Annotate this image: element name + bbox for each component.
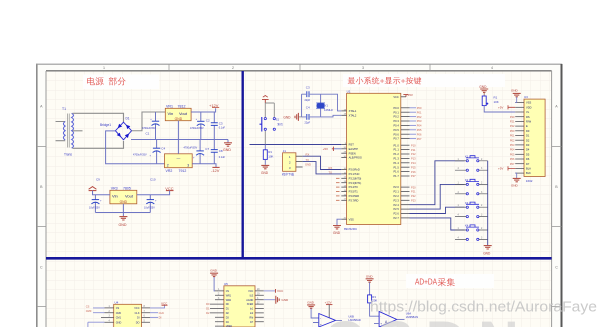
- svg-text:4700uF/35V: 4700uF/35V: [184, 146, 198, 149]
- power port +5V (reset): [262, 96, 269, 104]
- section divider vertical: [241, 71, 243, 258]
- svg-text:GND: GND: [305, 163, 311, 167]
- svg-text:7812: 7812: [178, 104, 186, 108]
- svg-text:RST: RST: [349, 143, 355, 147]
- svg-text:GND: GND: [120, 200, 128, 204]
- svg-text:VSS: VSS: [526, 101, 531, 105]
- svg-text:VR2: VR2: [166, 169, 173, 173]
- pin numbers MCU left: [344, 109, 347, 219]
- svg-text:Rfb: Rfb: [249, 316, 253, 319]
- svg-text:P01: P01: [510, 134, 515, 138]
- svg-text:P02: P02: [417, 115, 422, 119]
- crystal Y1 12MHz: [316, 94, 333, 117]
- svg-text:+5V: +5V: [498, 167, 503, 171]
- wire center tap stub: [73, 130, 83, 132]
- svg-text:AD+DA: AD+DA: [415, 277, 437, 287]
- ground (buttons): [483, 246, 492, 256]
- svg-text:CLK: CLK: [159, 311, 165, 315]
- svg-text:P21: P21: [510, 120, 515, 124]
- svg-text:P20: P20: [510, 115, 515, 119]
- ground (above R3): [366, 274, 374, 295]
- svg-text:GND: GND: [483, 251, 491, 255]
- svg-text:GND: GND: [116, 321, 122, 324]
- wire crystal to XTAL1: [321, 94, 342, 111]
- svg-text:89C52RC: 89C52RC: [344, 227, 358, 231]
- svg-text:D3: D3: [526, 143, 530, 147]
- label U6B LM358AD: [348, 315, 360, 322]
- connector J1 stubs: [296, 156, 303, 167]
- svg-text:7912: 7912: [179, 169, 187, 173]
- svg-text:GND: GND: [175, 117, 183, 121]
- ADC left stubs and wires: [86, 305, 114, 327]
- svg-text:P22: P22: [510, 124, 515, 128]
- svg-text:2: 2: [167, 164, 169, 168]
- wire 7805 input rail: [93, 191, 110, 195]
- svg-text:S1: S1: [276, 118, 280, 122]
- section divider horizontal: [46, 257, 552, 260]
- zone reference labels: [40, 66, 558, 270]
- svg-text:P2.1: P2.1: [393, 190, 399, 194]
- button S1 reset: [260, 103, 283, 145]
- svg-text:Vout: Vout: [179, 111, 188, 116]
- svg-text:P2.3: P2.3: [393, 198, 399, 202]
- svg-text:P01: P01: [417, 110, 422, 114]
- svg-text:XTAL1: XTAL1: [349, 109, 357, 113]
- svg-text:U3: U3: [524, 95, 528, 99]
- svg-text:GND: GND: [511, 184, 519, 188]
- svg-text:GND: GND: [223, 148, 231, 152]
- svg-text:P15: P15: [411, 165, 416, 169]
- svg-text:C7: C7: [205, 147, 209, 151]
- power port +12V input arrow: [89, 187, 97, 191]
- svg-text:D7: D7: [526, 162, 530, 166]
- svg-text:P07: P07: [510, 162, 515, 166]
- svg-text:+5V: +5V: [498, 106, 503, 110]
- J1 net labels: [305, 153, 332, 175]
- svg-text:P04: P04: [417, 124, 422, 128]
- svg-text:P03: P03: [417, 119, 422, 123]
- svg-text:D0: D0: [526, 129, 530, 133]
- svg-text:1602: 1602: [526, 179, 533, 183]
- title: power section: [83, 75, 159, 90]
- label U6A LM358AN: [406, 312, 418, 319]
- wire J1 pin2 to MCU TxD: [303, 162, 342, 174]
- wire secondary top to bridge: [73, 113, 124, 122]
- svg-text:CM0: CM0: [116, 312, 122, 315]
- MCU left pin stubs: [341, 111, 346, 219]
- ground (crystal) rotated left: [283, 113, 301, 121]
- wire RST long: [250, 144, 342, 146]
- svg-text:EA/VPP: EA/VPP: [349, 147, 359, 151]
- P3 pin tick marks: [336, 178, 340, 200]
- ground (LCD BLK): [511, 173, 521, 188]
- svg-text:E: E: [526, 124, 528, 128]
- svg-text:GND: GND: [307, 301, 315, 305]
- DAC data net labels: [206, 302, 210, 315]
- svg-text:VCC: VCC: [393, 95, 399, 99]
- op-amp U6A: [374, 312, 405, 327]
- svg-text:C8: C8: [219, 149, 223, 153]
- svg-text:D6: D6: [526, 157, 530, 161]
- svg-text:22pF: 22pF: [305, 99, 311, 102]
- svg-text:7805: 7805: [123, 187, 131, 191]
- svg-text:P1.5: P1.5: [393, 165, 399, 169]
- svg-text:RX: RX: [306, 153, 310, 157]
- title: AD+DA: [406, 274, 494, 288]
- svg-text:0.1uF: 0.1uF: [219, 156, 226, 159]
- svg-text:CM0: CM0: [86, 309, 92, 313]
- ADC right stubs: [142, 306, 151, 322]
- svg-text:P05: P05: [417, 128, 422, 132]
- wire bridge left to VR2 input rail: [106, 131, 165, 164]
- wire VR2 output rail to -12V: [192, 164, 216, 168]
- svg-text:D5: D5: [526, 152, 530, 156]
- svg-text:+: +: [320, 323, 322, 327]
- svg-text:4700uF/35V: 4700uF/35V: [142, 127, 156, 130]
- power port VCC (ADC): [150, 301, 168, 308]
- svg-text:22pF: 22pF: [305, 122, 311, 125]
- svg-text:—: —: [177, 157, 181, 161]
- capacitor C4 22pF (bottom): [302, 106, 321, 125]
- svg-text:1: 1: [103, 66, 105, 70]
- svg-text:P0.2: P0.2: [393, 115, 399, 119]
- svg-text:VR3: VR3: [111, 187, 118, 191]
- svg-text:DO: DO: [136, 321, 140, 324]
- svg-text:VCC: VCC: [165, 186, 173, 191]
- op-amp U6B: [313, 314, 342, 327]
- wire P2.4 to button K1: [410, 161, 465, 205]
- svg-text:P02: P02: [510, 138, 515, 142]
- svg-text:P03: P03: [510, 143, 515, 147]
- connector J1 program header: [282, 149, 296, 176]
- resistor R3 20K: [368, 295, 380, 316]
- wire J1 pin1 to MCU RxD: [303, 156, 342, 169]
- regulator VR2 7912: [165, 154, 193, 173]
- capacitor C10: [144, 195, 157, 213]
- svg-text:P1.7: P1.7: [393, 174, 399, 178]
- svg-text:D0: D0: [206, 302, 210, 306]
- svg-text:P0.5: P0.5: [393, 128, 399, 132]
- regulator VR1 7812: [165, 104, 191, 121]
- svg-text:P1.2: P1.2: [393, 152, 399, 156]
- svg-text:P20: P20: [411, 185, 416, 189]
- svg-text:0.1uF: 0.1uF: [219, 126, 226, 129]
- svg-text:P00: P00: [417, 106, 422, 110]
- svg-text:VR1: VR1: [166, 104, 173, 108]
- svg-text:CS: CS: [226, 290, 230, 293]
- svg-text:2: 2: [232, 66, 234, 70]
- regulator VR3 7805: [110, 187, 137, 205]
- svg-text:GND: GND: [333, 231, 341, 235]
- svg-text:P3.1/TxD: P3.1/TxD: [349, 172, 360, 176]
- svg-text:P2.7: P2.7: [393, 216, 399, 220]
- capacitor C7: [184, 140, 210, 164]
- capacitor C9: [89, 195, 102, 213]
- svg-text:DI: DI: [159, 316, 162, 320]
- svg-text:P0.1: P0.1: [393, 110, 399, 114]
- svg-text:XFER: XFER: [247, 303, 254, 306]
- svg-text:RX: RX: [329, 166, 333, 170]
- svg-text:P17: P17: [411, 174, 416, 178]
- wire VR3 GND pin: [122, 204, 124, 216]
- wire P2.7 to button K4: [410, 218, 465, 230]
- svg-text:C: C: [40, 266, 43, 270]
- svg-text:P0.7: P0.7: [393, 137, 399, 141]
- svg-text:D4: D4: [526, 148, 530, 152]
- svg-text:Vout: Vout: [125, 194, 134, 199]
- wire P2.6 to button K3: [410, 207, 465, 213]
- power port +5V at EA: [323, 147, 342, 152]
- svg-text:J1: J1: [283, 149, 287, 153]
- P0 net labels: [417, 106, 422, 141]
- net label DI: [150, 316, 162, 320]
- ground (LCD VSS): [511, 89, 521, 103]
- svg-text:Y1: Y1: [325, 104, 329, 108]
- net label CLK: [150, 311, 164, 315]
- svg-text:P1.1: P1.1: [393, 148, 399, 152]
- svg-text:Vin: Vin: [112, 194, 118, 199]
- power port +5V (LCD BLA): [498, 166, 515, 170]
- svg-text:R/W: R/W: [526, 120, 532, 124]
- svg-text:D1: D1: [206, 307, 210, 311]
- svg-text:P05: P05: [510, 152, 515, 156]
- svg-text:10K: 10K: [268, 155, 273, 159]
- power port +5V (LCD VDD): [498, 105, 515, 109]
- svg-text:D1: D1: [126, 117, 130, 121]
- svg-text:P06: P06: [510, 157, 515, 161]
- ground (op-amp input): [307, 301, 319, 319]
- svg-text:4700uF/35V: 4700uF/35V: [133, 153, 147, 156]
- ADC U4 TLC549: [114, 300, 142, 327]
- svg-text:4700uF/35V: 4700uF/35V: [190, 127, 204, 130]
- svg-text:C: C: [555, 266, 558, 270]
- power port VCC: [165, 186, 173, 191]
- wire secondary bottom to bridge: [73, 141, 124, 148]
- capacitor C1 4700uF/35V: [142, 112, 160, 140]
- capacitor C3 0.1uF: [211, 112, 226, 140]
- svg-text:P22: P22: [411, 194, 416, 198]
- svg-text:U4: U4: [115, 300, 119, 304]
- wire 7805 output rail: [137, 191, 170, 195]
- svg-text:C3: C3: [219, 121, 223, 125]
- svg-text:D2: D2: [526, 138, 530, 142]
- svg-text:10uF/25V: 10uF/25V: [89, 206, 100, 209]
- DAC left stubs: [210, 289, 224, 326]
- svg-text:4: 4: [491, 66, 493, 70]
- button K3: [455, 201, 488, 218]
- svg-text:AGND: AGND: [246, 299, 253, 302]
- wire VR1 Vout to +12V rail: [191, 108, 216, 112]
- svg-text:GND: GND: [479, 85, 487, 89]
- button K2: [455, 178, 488, 195]
- GND mid rail: [131, 139, 228, 141]
- ground GND (power mid): [223, 140, 232, 153]
- svg-text:P3.6/WR: P3.6/WR: [349, 194, 360, 198]
- svg-text:Bridge1: Bridge1: [100, 123, 111, 127]
- wire buttons common rail: [487, 161, 489, 245]
- svg-text:P2.6: P2.6: [393, 212, 399, 216]
- svg-text:https://blog.csdn.net/AuroraFa: https://blog.csdn.net/AuroraFaye: [370, 300, 597, 316]
- svg-text:VCC: VCC: [277, 289, 284, 293]
- svg-text:P11: P11: [411, 148, 416, 152]
- DAC U5 DAC0832: [224, 282, 255, 327]
- svg-text:P00: P00: [510, 129, 515, 133]
- svg-text:R1: R1: [268, 150, 272, 154]
- svg-text:P0.6: P0.6: [393, 132, 399, 136]
- power port VCC (DAC): [264, 289, 284, 293]
- svg-text:P14: P14: [411, 161, 416, 165]
- power port -12V: [211, 167, 220, 173]
- svg-text:GND: GND: [210, 268, 218, 272]
- wire VR2 top pin: [177, 140, 179, 154]
- wire VR1 GND pin: [177, 121, 179, 140]
- capacitor C4: [133, 140, 165, 164]
- svg-text:P3.2(INT0): P3.2(INT0): [349, 176, 362, 180]
- ground (reset R1): [261, 165, 269, 175]
- svg-text:P3.3(INT1): P3.3(INT1): [349, 181, 362, 185]
- svg-text:-: -: [320, 317, 321, 321]
- svg-text:12MHz: 12MHz: [324, 108, 333, 112]
- svg-text:CS: CS: [116, 307, 120, 310]
- P2 net labels: [411, 185, 416, 202]
- svg-text:PSEN: PSEN: [349, 151, 356, 155]
- svg-text:GND: GND: [119, 223, 127, 227]
- power port +12V: [209, 103, 219, 108]
- ground GND (7805): [119, 217, 128, 227]
- svg-text:VCC: VCC: [134, 307, 139, 310]
- svg-text:CLK: CLK: [135, 312, 140, 315]
- LCD control net labels: [510, 115, 515, 166]
- svg-text:P13: P13: [411, 157, 416, 161]
- svg-text:P2.0: P2.0: [393, 185, 399, 189]
- svg-text:P04: P04: [510, 148, 515, 152]
- bridge rectifier Bridge1: [100, 117, 132, 140]
- LCD connector U3 1602: [524, 95, 545, 183]
- svg-text:C10: C10: [150, 178, 156, 182]
- svg-text:3: 3: [362, 66, 364, 70]
- wire crystal to XTAL2: [321, 115, 342, 117]
- svg-text:GND: GND: [261, 171, 269, 175]
- power port +5V at MCU VCC: [403, 93, 413, 97]
- svg-text:+5V: +5V: [408, 93, 413, 97]
- svg-text:P2.2: P2.2: [393, 194, 399, 198]
- svg-text:GND: GND: [282, 298, 290, 302]
- svg-text:GND: GND: [366, 274, 374, 278]
- svg-text:P1.4: P1.4: [393, 161, 399, 165]
- svg-text:C4: C4: [161, 147, 165, 151]
- svg-text:D2: D2: [206, 311, 210, 315]
- svg-text:GND: GND: [283, 115, 291, 119]
- wire bridge right to VR1 Vin: [132, 112, 165, 131]
- svg-text:P1.6: P1.6: [393, 170, 399, 174]
- svg-text:XTAL2: XTAL2: [349, 113, 357, 117]
- svg-text:D1: D1: [526, 134, 530, 138]
- wire P2.5 to button K2: [410, 184, 465, 209]
- svg-text:GND: GND: [511, 89, 519, 93]
- svg-text:ILE: ILE: [250, 294, 254, 297]
- capacitor C8 0.1uF: [211, 140, 226, 164]
- svg-text:ALE/PROG: ALE/PROG: [349, 156, 362, 160]
- resistor R1 10K: [263, 145, 273, 165]
- svg-text:WR1: WR1: [226, 294, 232, 297]
- svg-text:P06: P06: [417, 132, 422, 136]
- svg-text:10K: 10K: [494, 100, 499, 104]
- resistor R4 10K: [482, 96, 515, 112]
- svg-text:P1.0: P1.0: [393, 143, 399, 147]
- svg-text:P2.5: P2.5: [393, 207, 399, 211]
- svg-text:VCC: VCC: [248, 290, 253, 293]
- svg-text:VSS: VSS: [349, 217, 354, 221]
- ground (DAC CS): [210, 268, 218, 291]
- svg-text:VDD: VDD: [526, 105, 532, 109]
- svg-text:P3.0/RxD: P3.0/RxD: [349, 168, 360, 172]
- svg-text:P0.0: P0.0: [393, 106, 399, 110]
- svg-text:P2.4: P2.4: [393, 203, 399, 207]
- svg-text:P3.4/T0: P3.4/T0: [349, 185, 359, 189]
- button K1: [455, 155, 488, 172]
- P1 net labels: [411, 143, 416, 178]
- title: minimal system: [343, 74, 505, 87]
- transformer T1: [56, 107, 74, 157]
- svg-text:BLK: BLK: [526, 171, 531, 175]
- svg-text:VL: VL: [526, 110, 530, 114]
- svg-text:P0.4: P0.4: [393, 124, 399, 128]
- svg-text:C3: C3: [306, 86, 310, 90]
- power port +12V (op-amp): [325, 301, 333, 318]
- svg-text:Vin: Vin: [168, 111, 174, 116]
- svg-text:RS: RS: [526, 115, 530, 119]
- svg-text:CS: CS: [86, 305, 90, 309]
- svg-text:3: 3: [187, 164, 189, 168]
- button K4: [455, 224, 488, 241]
- svg-text:C4: C4: [306, 106, 310, 110]
- svg-text:P07: P07: [417, 137, 422, 141]
- svg-text:+12V: +12V: [325, 301, 332, 305]
- svg-text:+5V: +5V: [323, 147, 328, 151]
- ground arrow (DAC AGND): [264, 296, 289, 304]
- svg-text:BLA: BLA: [526, 167, 531, 171]
- capacitor C2: [190, 112, 210, 140]
- svg-text:P1.3: P1.3: [393, 157, 399, 161]
- wire 7805 bottom rail: [95, 212, 150, 214]
- ground at MCU VSS: [333, 219, 341, 235]
- svg-text:WR2: WR2: [226, 299, 232, 302]
- MCU right pin stubs: [401, 97, 410, 218]
- svg-text:P3.7/RD: P3.7/RD: [349, 198, 359, 202]
- svg-text:T1: T1: [62, 107, 66, 111]
- P0 net wires: [410, 108, 417, 139]
- svg-text:C9: C9: [96, 178, 100, 182]
- svg-text:DI: DI: [137, 317, 140, 320]
- svg-text:P21: P21: [411, 190, 416, 194]
- ground (above R4): [479, 85, 488, 96]
- svg-text:P12: P12: [411, 152, 416, 156]
- sheet border frame: [36, 64, 562, 327]
- svg-text:P3.5/T1: P3.5/T1: [349, 190, 359, 194]
- svg-text:C2: C2: [206, 118, 210, 122]
- svg-text:C1: C1: [146, 132, 150, 136]
- LCD pin stubs: [515, 103, 524, 174]
- svg-text:CM1: CM1: [116, 317, 122, 320]
- MCU U1 89C52RC: [344, 90, 401, 231]
- svg-text:P0.3: P0.3: [393, 119, 399, 123]
- svg-text:10uF/25V: 10uF/25V: [144, 206, 155, 209]
- svg-text:TX: TX: [306, 158, 310, 162]
- svg-text:P23: P23: [411, 199, 416, 203]
- svg-text:-12V: -12V: [211, 168, 220, 173]
- svg-text:P16: P16: [411, 170, 416, 174]
- DAC right stubs: [255, 289, 264, 322]
